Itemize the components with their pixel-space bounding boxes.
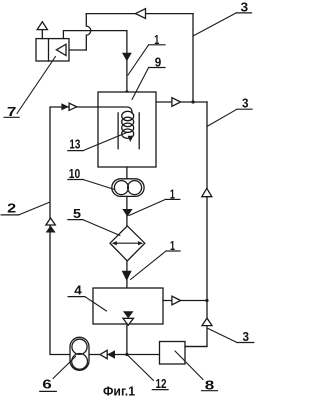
electrode bar left in box 9 (117, 113, 119, 149)
vent arrow open up on box 7 (37, 22, 47, 30)
svg-text:7: 7 (7, 104, 17, 119)
svg-text:Фиг.1: Фиг.1 (103, 385, 135, 399)
underline label 9 (149, 67, 165, 69)
svg-text:2: 2 (7, 201, 16, 216)
leader label 4 (85, 297, 107, 311)
wire bottom horizontal (89, 354, 160, 356)
underline label 5 (68, 219, 83, 221)
svg-text:1: 1 (170, 238, 175, 253)
svg-text:3: 3 (242, 96, 249, 111)
double arrow inside diamond 5 (115, 242, 140, 244)
leader label 3 bottom (208, 329, 237, 343)
wire right upper vertical (192, 14, 194, 102)
wire pump 10 to diamond 5 (126, 196, 128, 226)
arrow open up on right vertical lower (202, 318, 212, 326)
arrow open right into box 9 (69, 103, 77, 110)
vent stem on box 7 (41, 30, 43, 39)
underline label 10 (68, 179, 83, 181)
coil 13 inlet curve (98, 107, 132, 113)
arrow open down below box4 bottom (123, 318, 134, 325)
underline label 1 top (149, 44, 165, 46)
underline label 3 bottom (237, 342, 254, 344)
wire box7 outlet to V1 (69, 49, 86, 51)
underline label 8 (202, 390, 218, 392)
wire box8 outlet to right vertical (185, 346, 207, 348)
arrow open up on left vertical (46, 218, 55, 225)
wire box4 outlet right (163, 300, 207, 302)
underline label 2 (1, 214, 19, 216)
arrow open up on right vertical upper (202, 188, 212, 196)
wire box4 bottom to bottom line (126, 325, 128, 354)
arrow filled down above diamond (122, 209, 132, 217)
svg-text:9: 9 (155, 55, 162, 70)
svg-text:3: 3 (241, 0, 249, 15)
svg-text:1: 1 (170, 186, 175, 201)
pump 6 rotor bottom (72, 354, 88, 370)
pump 10 rotor left (114, 181, 128, 195)
wire H1 from box7 top to V2 (63, 31, 127, 39)
node junction right upper (191, 100, 194, 103)
pump 6 stadium (70, 337, 89, 370)
node junction bottom center (125, 353, 128, 356)
leader label 7 (17, 57, 56, 114)
coil 13 loop 1 (122, 111, 134, 120)
svg-text:8: 8 (205, 378, 215, 393)
wire left vertical main (50, 107, 98, 355)
leader label 9 (132, 68, 149, 100)
arrow filled down above box 4 (122, 271, 132, 281)
leader label 6 (53, 357, 76, 379)
arrow open right on box9 outlet (172, 98, 181, 107)
wire V2 center down to box 9 (126, 31, 128, 92)
wire V1 with hop over H1 (86, 14, 90, 50)
svg-text:6: 6 (42, 377, 52, 392)
svg-text:10: 10 (69, 166, 81, 181)
pump 6 rotor top (72, 339, 87, 354)
leader label 1 top (128, 45, 149, 75)
leader label 1 diamond upper (129, 199, 166, 215)
underline label 12 (152, 389, 168, 391)
pump 10 rotor right (128, 181, 142, 195)
underline label 13 (68, 150, 83, 152)
svg-text:3: 3 (243, 329, 250, 344)
underline label 7 (4, 116, 19, 118)
svg-text:13: 13 (69, 137, 80, 152)
wire box9 outlet right (156, 101, 207, 103)
underline label 1 diamond upper (166, 198, 180, 200)
arrow filled down on V2 (122, 53, 132, 61)
leader label 2 (19, 202, 50, 215)
valve box 7 (36, 39, 69, 61)
coil 13 loop 4 (122, 129, 134, 138)
arrow open left on bottom wire (100, 350, 107, 358)
filter box 8 (160, 342, 186, 365)
arrow filled down at box4 bottom (123, 311, 134, 318)
svg-text:4: 4 (74, 283, 82, 298)
leader label 1 diamond lower (131, 251, 167, 280)
arrow filled up on left vertical (46, 226, 56, 233)
mixer diamond 5 (110, 226, 145, 261)
leader label 8 (175, 351, 203, 380)
valve box 7 divider (48, 39, 50, 61)
leader label 3 middle (207, 109, 237, 126)
coil 13 loop 2 (122, 117, 134, 126)
leader label 5 (83, 220, 120, 236)
leader label 12 (128, 356, 154, 381)
arrow filled left on bottom wire (107, 350, 115, 358)
arrow open left on top wire (136, 9, 146, 19)
wire top horizontal (86, 13, 193, 15)
svg-text:12: 12 (156, 376, 167, 391)
node junction box9 top (125, 90, 128, 93)
underline label 3 top (236, 12, 251, 14)
wire box9 bottom to pump 10 (126, 167, 128, 179)
underline label 4 (68, 296, 85, 298)
leader label 13 (83, 132, 128, 151)
node junction right lower (205, 299, 208, 302)
apparatus box 4 (93, 288, 163, 324)
leader label 10 (83, 180, 114, 190)
svg-text:5: 5 (73, 206, 81, 221)
underline label 1 diamond lower (166, 250, 180, 252)
electrode bar right in box 9 (138, 113, 140, 149)
underline label 3 middle (237, 108, 252, 110)
pump 10 stadium (112, 179, 144, 197)
apparatus box 9 (98, 92, 156, 167)
coil 13 end arrow filled down (128, 136, 134, 142)
underline label 6 (40, 390, 57, 392)
coil 13 loop 3 (122, 123, 134, 132)
arrow filled right into box 9 (61, 103, 68, 110)
leader label 3 top (193, 13, 236, 36)
wire right lower vertical (185, 102, 207, 347)
wire diamond 5 to box 4 (126, 261, 128, 288)
arrow open left inside box 7 (56, 44, 66, 55)
svg-text:1: 1 (154, 32, 159, 47)
arrow open right on box4 outlet (172, 296, 181, 305)
